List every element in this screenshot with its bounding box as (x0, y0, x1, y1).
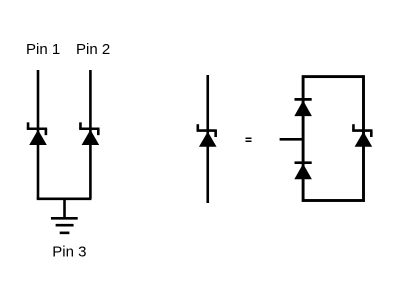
svg-text:Pin 1: Pin 1 (26, 41, 60, 58)
svg-text:Pin 2: Pin 2 (76, 41, 110, 58)
svg-text:Pin 3: Pin 3 (52, 244, 86, 261)
